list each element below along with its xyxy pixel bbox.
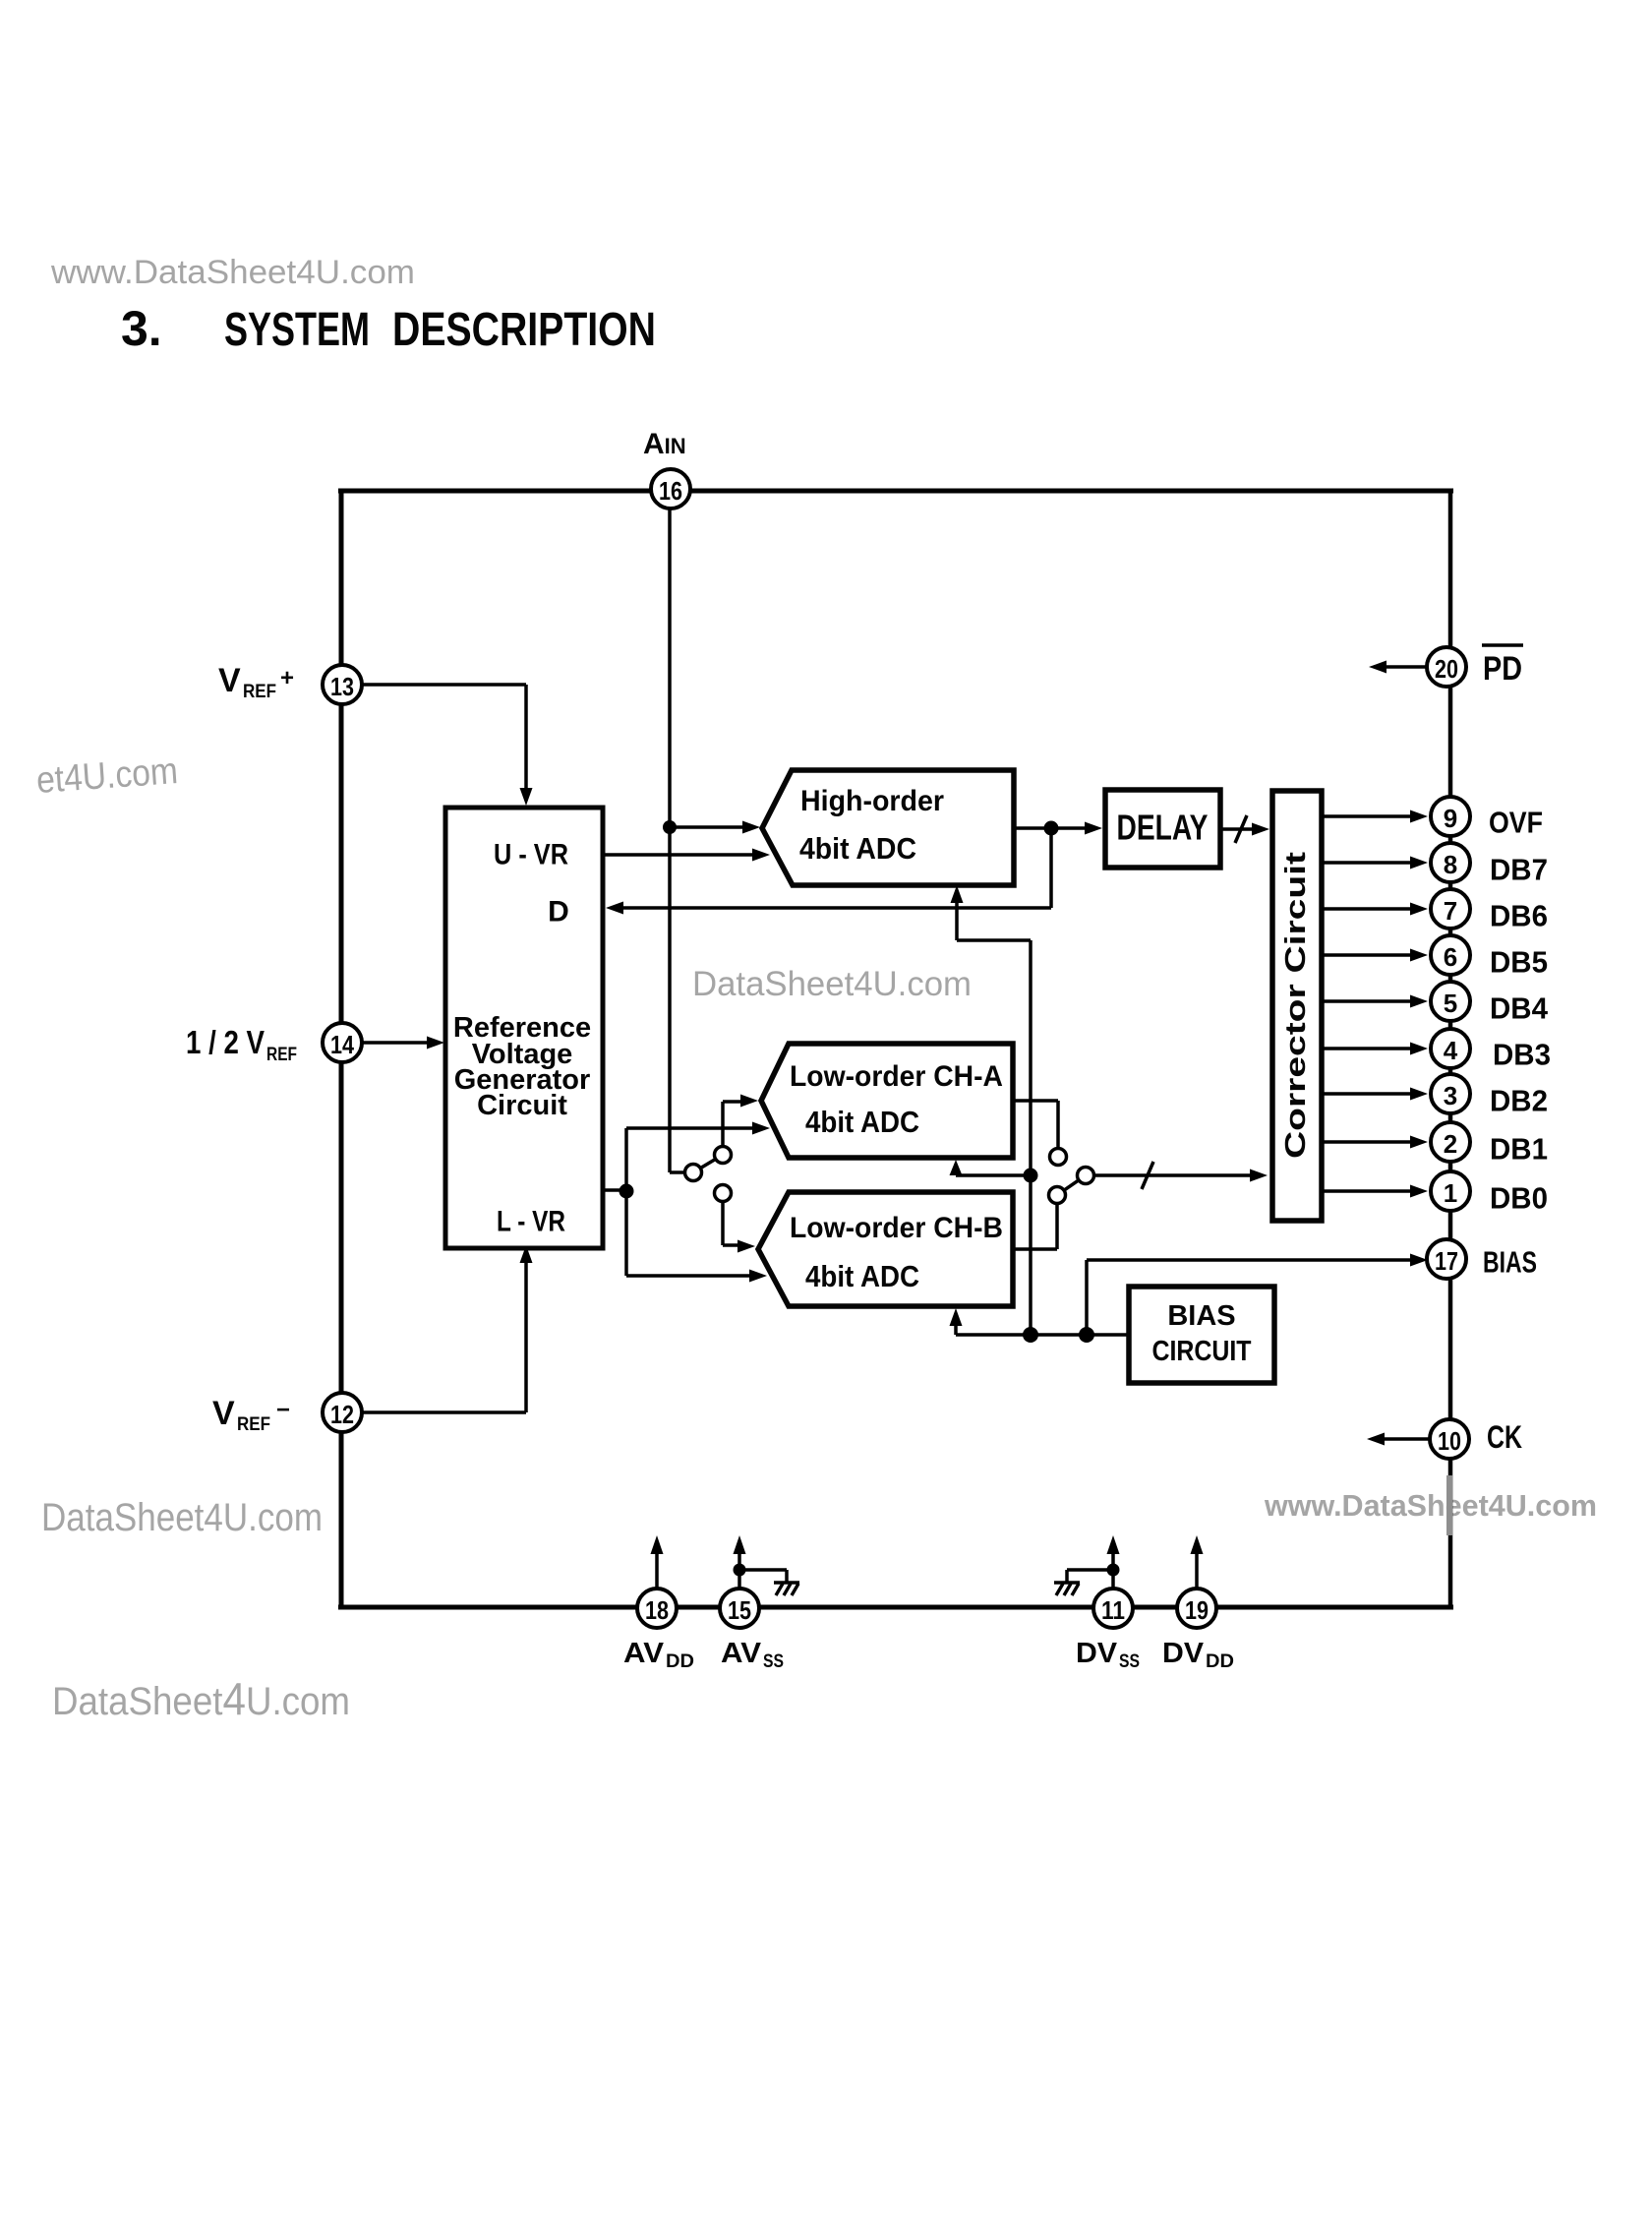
svg-text:18: 18 — [645, 1595, 669, 1625]
wire U-VR output to high-order ADC — [603, 853, 762, 857]
wire CH-B output to selector — [1013, 1247, 1057, 1251]
svg-text:1: 1 — [1444, 1178, 1457, 1208]
wire PD pin20 arrow — [1377, 665, 1427, 669]
svg-text:4bit ADC: 4bit ADC — [799, 831, 916, 866]
wire riser to pin 17 — [1085, 1260, 1089, 1335]
pin 4 — [1431, 1029, 1470, 1068]
svg-text:19: 19 — [1185, 1595, 1209, 1625]
pin 2 — [1431, 1122, 1470, 1162]
corrector circuit box — [1272, 791, 1322, 1221]
svg-text:13: 13 — [330, 672, 354, 701]
svg-text:www.DataSheet4U.com: www.DataSheet4U.com — [50, 254, 415, 291]
pin 20 — [1427, 647, 1466, 687]
wire AVSS pin15 arrow up — [737, 1544, 741, 1589]
svg-text:15: 15 — [728, 1595, 751, 1625]
pin 18 — [637, 1589, 677, 1628]
svg-text:SS: SS — [763, 1651, 784, 1672]
gray watermark band over right edge — [1446, 1475, 1452, 1535]
svg-text:14: 14 — [330, 1030, 354, 1059]
input selector blade — [700, 1159, 715, 1168]
svg-text:6: 6 — [1444, 942, 1457, 972]
svg-text:DB6: DB6 — [1490, 899, 1548, 933]
low-order CH-A 4bit ADC block — [761, 1044, 1013, 1158]
junction dot L-VR — [619, 1184, 634, 1199]
svg-text:High-order: High-order — [800, 785, 944, 817]
bus slash delay output — [1235, 815, 1247, 843]
svg-text:7: 7 — [1444, 896, 1457, 926]
svg-text:3.: 3. — [121, 301, 162, 356]
wire D feedback horizontal to reference box — [612, 906, 1051, 910]
wire L-VR output — [603, 1188, 626, 1192]
pin 5 — [1431, 982, 1470, 1021]
svg-text:DV: DV — [1076, 1638, 1118, 1669]
svg-text:SYSTEM: SYSTEM — [224, 304, 370, 356]
bus slash low-order output — [1142, 1162, 1153, 1189]
corrector output wires to pins — [1322, 816, 1416, 1191]
svg-text:V: V — [218, 662, 241, 699]
pin 8 — [1431, 843, 1470, 882]
BIAS circuit box — [1129, 1287, 1274, 1383]
wire D feedback vertical — [1049, 828, 1053, 908]
svg-text:9: 9 — [1444, 804, 1457, 833]
svg-text:DB5: DB5 — [1490, 945, 1548, 980]
svg-text:AV: AV — [623, 1638, 665, 1669]
svg-text:DB1: DB1 — [1490, 1132, 1548, 1167]
junction dot AIN to high-order ADC — [663, 820, 677, 834]
svg-text:4bit ADC: 4bit ADC — [805, 1259, 919, 1293]
svg-text:3: 3 — [1444, 1081, 1457, 1110]
svg-text:SS: SS — [1119, 1651, 1140, 1672]
svg-text:L - VR: L - VR — [497, 1206, 565, 1238]
svg-text:CIRCUIT: CIRCUIT — [1152, 1336, 1252, 1367]
junction dot bias line left — [1023, 1327, 1038, 1343]
chip boundary top edge — [338, 489, 1453, 494]
wire switch to CH-B input — [721, 1202, 725, 1246]
svg-text:U - VR: U - VR — [494, 839, 568, 871]
pin 12 — [323, 1393, 362, 1432]
svg-text:www.DataSheet4U.com: www.DataSheet4U.com — [1264, 1488, 1597, 1523]
pin 11 — [1093, 1589, 1133, 1628]
output selector upper circle — [1050, 1149, 1067, 1166]
pin 9 — [1431, 797, 1470, 836]
svg-text:DataSheet4U.com: DataSheet4U.com — [692, 965, 972, 1003]
svg-text:Low-order CH-B: Low-order CH-B — [790, 1212, 1003, 1244]
svg-text:Low-order CH-A: Low-order CH-A — [790, 1060, 1003, 1093]
chip boundary right edge — [1448, 489, 1453, 1609]
pin 19 — [1177, 1589, 1216, 1628]
junction dot bias to CH-A clock — [1024, 1169, 1038, 1183]
pin 13 — [323, 665, 362, 704]
svg-text:OVF: OVF — [1489, 806, 1543, 840]
wire switch to CH-A input — [721, 1102, 725, 1147]
wire L-VR to CH-B reference input — [624, 1191, 628, 1276]
svg-text:10: 10 — [1438, 1426, 1461, 1456]
svg-text:REF: REF — [237, 1414, 270, 1435]
junction dot bias line right — [1079, 1327, 1094, 1343]
wire BIAS circuit output line — [956, 1333, 1129, 1337]
svg-text:DD: DD — [1206, 1651, 1234, 1672]
wire bias feed to CH-A bottom — [956, 1173, 1031, 1177]
svg-text:8: 8 — [1444, 850, 1457, 879]
high-order 4bit ADC block — [762, 770, 1014, 885]
svg-text:+: + — [280, 665, 294, 691]
svg-text:Corrector Circuit: Corrector Circuit — [1280, 852, 1312, 1159]
svg-text:REF: REF — [266, 1045, 297, 1065]
ground symbol AVSS — [774, 1583, 799, 1595]
wire L-VR to CH-A reference input — [624, 1128, 628, 1191]
svg-text:AV: AV — [721, 1638, 762, 1669]
chip boundary left edge — [339, 489, 344, 1609]
svg-text:DataSheet4U.com: DataSheet4U.com — [52, 1673, 350, 1724]
svg-text:Circuit: Circuit — [477, 1090, 567, 1121]
svg-text:DataSheet4U.com: DataSheet4U.com — [41, 1496, 323, 1539]
wire bias feed vertical — [1029, 940, 1032, 1335]
wire VREF- pin12 to reference box bottom — [360, 1410, 526, 1414]
wire AVDD pin18 arrow up — [655, 1544, 659, 1589]
pin 15 — [720, 1589, 759, 1628]
svg-text:BIAS: BIAS — [1483, 1245, 1537, 1280]
pin 3 — [1431, 1074, 1470, 1113]
svg-text:V: V — [212, 1395, 235, 1432]
wire VREF+ pin13 to reference box — [360, 683, 526, 687]
svg-text:DV: DV — [1162, 1638, 1205, 1669]
svg-text:DB0: DB0 — [1490, 1181, 1548, 1216]
pin 16 AIN — [651, 469, 690, 509]
output selector common circle — [1078, 1168, 1094, 1184]
svg-text:5: 5 — [1444, 989, 1457, 1018]
wire selector to corrector — [1094, 1173, 1260, 1177]
input selector switch upper circle — [715, 1147, 732, 1164]
svg-text:CK: CK — [1487, 1419, 1522, 1455]
svg-text:4: 4 — [1444, 1036, 1458, 1065]
wire DELAY to corrector — [1220, 827, 1262, 831]
svg-text:2: 2 — [1444, 1129, 1457, 1159]
svg-text:PD: PD — [1483, 650, 1522, 688]
wire DVSS to ground — [1067, 1568, 1113, 1572]
wire high-order ADC output to DELAY — [1014, 826, 1094, 830]
svg-text:DESCRIPTION: DESCRIPTION — [392, 304, 656, 356]
pin 6 — [1431, 935, 1470, 975]
input selector switch common circle — [685, 1165, 702, 1181]
svg-text:BIAS: BIAS — [1167, 1300, 1235, 1332]
svg-text:REF: REF — [243, 682, 276, 702]
svg-text:20: 20 — [1435, 654, 1458, 684]
chip boundary bottom edge — [338, 1605, 1453, 1610]
pin 17 — [1427, 1239, 1466, 1279]
svg-text:12: 12 — [330, 1400, 354, 1429]
wire AIN to high-order ADC input — [670, 825, 744, 829]
junction dot delay branch — [1044, 821, 1059, 836]
low-order CH-B 4bit ADC block — [758, 1192, 1013, 1306]
svg-text:11: 11 — [1101, 1595, 1125, 1625]
ground symbol DVSS — [1054, 1583, 1080, 1595]
DELAY box — [1105, 790, 1220, 868]
wire CK pin10 arrow — [1375, 1437, 1430, 1441]
input selector switch lower circle — [715, 1185, 732, 1202]
wire DVSS pin11 arrow up — [1111, 1544, 1115, 1589]
reference voltage generator box — [445, 808, 603, 1248]
svg-text:4bit ADC: 4bit ADC — [805, 1105, 919, 1139]
svg-text:DELAY: DELAY — [1117, 808, 1209, 848]
junction dot AVSS ground tap — [734, 1564, 746, 1577]
pin 1 — [1431, 1171, 1470, 1211]
svg-text:DB7: DB7 — [1490, 853, 1548, 887]
wire bias jog to high-order ADC bottom — [957, 938, 1031, 942]
svg-text:D: D — [548, 896, 569, 929]
pin 10 — [1430, 1419, 1469, 1459]
svg-text:DB3: DB3 — [1493, 1038, 1551, 1072]
svg-text:−: − — [276, 1397, 290, 1423]
svg-text:1 / 2 V: 1 / 2 V — [186, 1024, 265, 1060]
wire AIN vertical drop — [668, 509, 672, 1172]
wire 1/2 VREF pin14 to reference box — [360, 1041, 439, 1045]
pin 7 — [1431, 889, 1470, 929]
output selector blade — [1064, 1180, 1079, 1190]
wire CH-A output to selector — [1013, 1099, 1058, 1103]
svg-text:17: 17 — [1435, 1246, 1458, 1276]
wire DVDD pin19 arrow up — [1195, 1544, 1199, 1589]
svg-text:DD: DD — [666, 1651, 694, 1672]
junction dot DVSS ground tap — [1107, 1564, 1120, 1577]
svg-text:DB4: DB4 — [1490, 991, 1549, 1026]
svg-text:16: 16 — [659, 476, 682, 506]
wire AVSS to ground — [739, 1568, 787, 1572]
pin 14 — [323, 1023, 362, 1062]
svg-text:DB2: DB2 — [1490, 1084, 1548, 1118]
output selector lower circle — [1049, 1187, 1066, 1204]
